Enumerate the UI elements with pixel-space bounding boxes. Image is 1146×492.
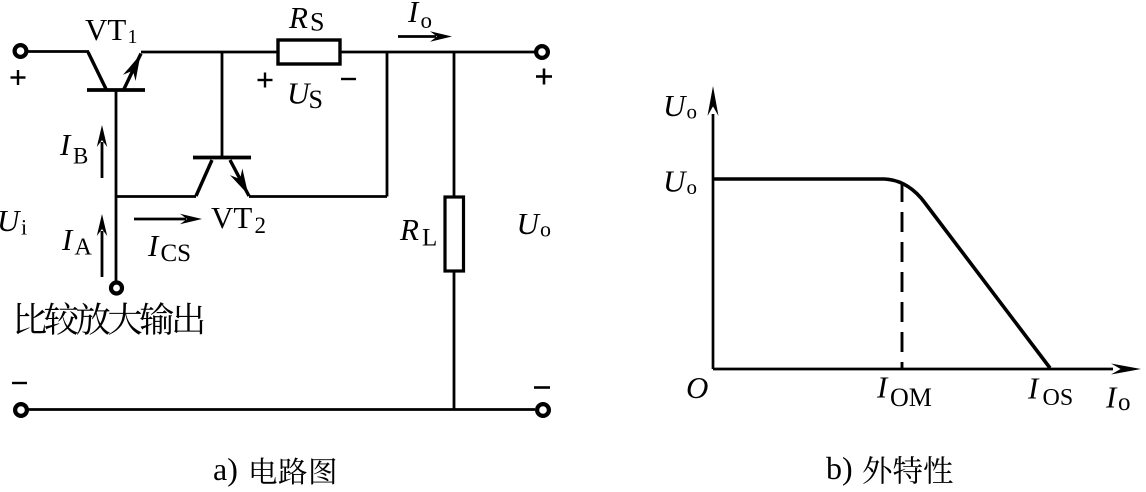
svg-text:I: I	[61, 222, 74, 257]
svg-text:o: o	[687, 175, 698, 199]
svg-text:1: 1	[128, 26, 138, 48]
svg-text:OS: OS	[1043, 385, 1074, 411]
svg-text:i: i	[21, 215, 27, 240]
svg-text:o: o	[540, 217, 551, 242]
svg-text:2: 2	[255, 213, 267, 238]
svg-text:b): b)	[826, 450, 853, 486]
svg-text:U: U	[663, 88, 688, 123]
svg-text:o: o	[421, 8, 433, 33]
svg-text:I: I	[407, 0, 420, 29]
svg-text:O: O	[686, 370, 708, 405]
svg-text:L: L	[422, 225, 437, 252]
svg-text:R: R	[399, 212, 419, 247]
svg-text:B: B	[73, 144, 88, 169]
svg-text:I: I	[1105, 380, 1118, 415]
svg-text:VT: VT	[211, 200, 252, 235]
svg-text:I: I	[147, 228, 160, 263]
svg-text:U: U	[0, 203, 22, 238]
svg-text:I: I	[1027, 371, 1040, 406]
svg-text:S: S	[309, 85, 323, 114]
svg-text:R: R	[288, 0, 308, 35]
svg-text:U: U	[663, 164, 688, 199]
svg-text:I: I	[876, 370, 889, 405]
svg-text:S: S	[310, 8, 324, 37]
svg-text:U: U	[517, 206, 542, 241]
svg-text:o: o	[1118, 389, 1131, 416]
svg-text:A: A	[75, 235, 93, 261]
svg-text:OM: OM	[890, 383, 932, 412]
svg-text:VT: VT	[85, 12, 126, 47]
svg-text:CS: CS	[161, 240, 192, 267]
svg-text:a): a)	[213, 451, 238, 487]
svg-text:o: o	[687, 100, 698, 124]
svg-text:I: I	[59, 127, 72, 162]
